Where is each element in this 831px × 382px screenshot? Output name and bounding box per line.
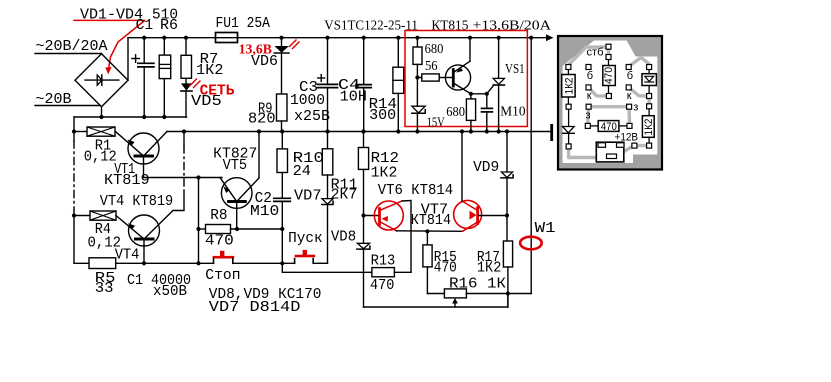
PCB link left pad to 1K2 box	[567, 69, 569, 75]
resistor R13	[372, 268, 395, 277]
transistor VT6 (red)	[364, 215, 379, 217]
PCB link stb pad to 470 box	[608, 59, 610, 66]
svg-text:2К7: 2К7	[331, 187, 358, 203]
resistor 680 upper	[416, 38, 418, 47]
PCB trace Z link horizontal	[589, 105, 630, 108]
resistor R12	[363, 132, 365, 148]
svg-text:б: б	[627, 70, 633, 82]
node rail-R9/R10	[280, 129, 284, 133]
svg-text:1К2: 1К2	[564, 78, 576, 95]
node R6 bottom	[162, 115, 166, 119]
bridge diode symbol	[85, 79, 119, 81]
capacitor C2	[274, 197, 291, 199]
svg-text:1К2: 1К2	[371, 166, 398, 182]
svg-text:VD7 D814D: VD7 D814D	[209, 300, 301, 316]
svg-text:470: 470	[603, 67, 615, 84]
svg-text:R6: R6	[160, 18, 178, 34]
wire collector link VT4 solid top	[183, 132, 185, 147]
svg-text:VS1: VS1	[505, 61, 525, 76]
node rail-680 lower	[469, 129, 473, 133]
svg-text:W1: W1	[535, 221, 556, 237]
PCB component diode left	[563, 127, 575, 133]
node R16-R17	[506, 291, 510, 295]
node VT5 base-R8	[235, 227, 239, 231]
node VT6 base / R12 / VD8	[361, 213, 365, 217]
node rail-VT7	[460, 129, 464, 133]
svg-text:VT4 КТ819: VT4 КТ819	[100, 194, 173, 210]
svg-text:Стоп: Стоп	[205, 268, 240, 284]
capacitor M10	[486, 94, 488, 109]
PCB component diode right (boxed)	[642, 74, 656, 86]
svg-text:КТ819: КТ819	[104, 173, 150, 189]
node rail-zener15V	[415, 129, 419, 133]
node top VD6	[279, 36, 283, 40]
zener VD7	[322, 199, 333, 205]
wire VT6 lower lead along y231.3	[397, 230, 463, 233]
PCB pad left col top	[566, 65, 571, 70]
red pointer arrow from VD1-VD4 to bridge	[108, 21, 144, 70]
wire bottom bus y307	[364, 294, 508, 308]
resistor R14	[397, 38, 399, 67]
svg-text:1000: 1000	[290, 93, 325, 109]
svg-text:стб: стб	[587, 47, 604, 59]
node rail-dashline	[182, 129, 186, 133]
node rail-R1	[72, 129, 76, 133]
red underline under VD1-VD4	[74, 19, 145, 21]
wire AC input 1	[35, 53, 102, 55]
PCB link diode to pad	[568, 134, 570, 145]
PCB trace right K pad to E pad	[629, 87, 647, 96]
PCB link left col pad to diode	[568, 109, 570, 127]
output arrow +13.6V	[546, 34, 554, 41]
PCB pad K right	[626, 85, 631, 90]
transistor KT815 internal	[445, 65, 470, 90]
wire VT7 upper lead to rail	[461, 132, 463, 202]
PCB link E col to 1K2 right box	[648, 108, 650, 116]
PCB pad Z right	[627, 104, 632, 109]
svg-text:+12В: +12В	[615, 132, 639, 144]
wire left rail upper	[73, 117, 75, 141]
svg-text:470: 470	[205, 233, 234, 249]
PCB pad E mid	[647, 94, 652, 99]
wire VS1 gate	[487, 86, 493, 94]
PCB trace stb pads	[607, 47, 610, 57]
node top R14	[396, 36, 400, 40]
wire main rail y131.5	[167, 131, 550, 133]
PCB trace left pad to stb	[568, 47, 605, 65]
PCB white island	[563, 41, 658, 164]
resistor R1 (shunt with X)	[87, 127, 115, 136]
LED VD5	[185, 78, 187, 83]
node top W1 column	[529, 36, 533, 40]
welding loop W1 (red ellipse)	[520, 237, 542, 250]
resistor R5	[89, 258, 116, 269]
svg-text:з: з	[586, 110, 591, 122]
svg-text:х25В: х25В	[294, 109, 330, 125]
node R8 left	[196, 227, 200, 231]
node top C4	[362, 36, 366, 40]
svg-text:56: 56	[425, 58, 438, 73]
wire bottom-left bus y263.3	[74, 262, 89, 264]
resistor 56	[417, 77, 421, 79]
node top C1	[142, 36, 146, 40]
resistor R17	[503, 241, 512, 267]
wire VT5 base down	[236, 203, 238, 229]
svg-text:VS1ТС122-25-11: VS1ТС122-25-11	[324, 18, 418, 33]
capacitor C4	[363, 38, 365, 85]
svg-text:680: 680	[446, 104, 465, 119]
node VD9-VT7 base	[505, 213, 509, 217]
svg-text:VD5: VD5	[191, 94, 222, 110]
wire top rail +	[128, 37, 547, 39]
PCB component 470 horizontal	[598, 121, 619, 132]
transistor VT4	[129, 215, 160, 246]
PCB pad E mid2	[647, 104, 652, 109]
wire W1 column	[530, 38, 532, 294]
fuse FU1	[216, 33, 238, 43]
node base wire x198.5	[196, 175, 200, 179]
svg-text:б: б	[587, 70, 593, 82]
node top C3	[325, 36, 329, 40]
PCB pad 470H right	[627, 123, 632, 128]
node bus-VT4 base	[142, 261, 146, 265]
potentiometer R16	[427, 293, 444, 295]
PCB pad E bottom	[647, 143, 652, 148]
svg-text:470: 470	[370, 278, 394, 294]
wire R8 row y229	[199, 228, 206, 230]
PCB pad Z left	[586, 104, 591, 109]
PCB component 1К2 right	[642, 116, 654, 138]
node rail-capM10	[485, 129, 489, 133]
PCB trace 470 right pad up	[627, 110, 631, 124]
PCB pad E top	[647, 65, 652, 70]
wire KT815 emitter node	[471, 93, 487, 95]
svg-text:1К2: 1К2	[643, 119, 655, 136]
svg-text:FU1 25А: FU1 25А	[216, 16, 271, 32]
PCB pad K left	[586, 85, 591, 90]
resistor R11	[327, 132, 329, 149]
PCB trace E pad chain	[647, 96, 650, 106]
transistor VT7 (red)	[454, 200, 482, 228]
PCB pad B left	[586, 65, 591, 70]
wire left rail dash-dot section	[73, 141, 75, 210]
wire VT1 base down	[144, 158, 223, 178]
zener 15V	[412, 106, 425, 113]
wire bottom bus y117	[74, 116, 187, 118]
svg-text:24: 24	[293, 164, 311, 180]
svg-text:Пуск: Пуск	[288, 231, 323, 247]
button Стоп contacts	[213, 259, 215, 264]
svg-text:VD8: VD8	[331, 229, 356, 245]
wire KT815 collector to top rail	[469, 38, 471, 62]
node C2-R8 right	[280, 227, 284, 231]
bridge rectifier VD1-VD4 diamond	[75, 54, 128, 107]
wire VT4 base down	[143, 241, 145, 264]
resistor 680 lower	[470, 94, 472, 99]
red module box VS1	[405, 31, 527, 127]
button Пуск contacts	[294, 259, 296, 264]
svg-text:к: к	[627, 90, 632, 102]
svg-text:VD6: VD6	[251, 54, 278, 70]
node top VS1	[497, 36, 501, 40]
capacitor C3	[327, 38, 329, 85]
capacitor C1	[143, 38, 145, 64]
svg-text:~20В/20А: ~20В/20А	[36, 39, 108, 55]
PCB link 1K2 right box to pad	[648, 137, 650, 143]
svg-text:VT5: VT5	[223, 158, 248, 174]
PCB transistor footprint	[596, 142, 624, 162]
PCB pad 470H left	[585, 123, 590, 128]
PCB trace right B pad to E pad	[630, 58, 649, 66]
PCB link 1K2 box to pad	[567, 97, 569, 105]
svg-text:КТ814: КТ814	[411, 213, 451, 229]
wire left rail lower	[73, 210, 75, 263]
node rail-R14	[396, 129, 400, 133]
node 56 branch	[415, 75, 419, 79]
R16 wiper arrow	[454, 301, 456, 307]
node KT815 collector top	[468, 36, 472, 40]
wire VT7 base to VD9 column	[479, 215, 507, 217]
node rail-C4/R12	[361, 129, 365, 133]
wire bridge minus down	[101, 107, 103, 117]
svg-text:х50В: х50В	[153, 284, 187, 300]
PCB link 470 box to bottom pad	[608, 86, 610, 95]
svg-text:М10: М10	[500, 103, 525, 118]
svg-text:680: 680	[425, 41, 444, 56]
node C1 bottom	[142, 115, 146, 119]
node top zener column	[415, 36, 419, 40]
wire rail to R1	[74, 131, 87, 133]
svg-text:820: 820	[248, 112, 276, 128]
svg-text:470: 470	[434, 260, 457, 276]
transistor VT5	[221, 178, 252, 209]
zener VD8	[357, 243, 369, 248]
svg-text:VT4: VT4	[115, 248, 140, 264]
PCB pad B right	[626, 65, 631, 70]
svg-text:VD9: VD9	[473, 160, 499, 176]
node emitter-cap	[485, 92, 489, 96]
node R15 top	[425, 229, 429, 233]
svg-text:М10: М10	[250, 204, 279, 220]
LED VD5 emission strokes (red)	[190, 79, 197, 86]
zener VD9	[506, 132, 508, 173]
resistor R9	[277, 94, 288, 121]
node rail-VD9	[505, 129, 509, 133]
node top R6	[162, 36, 166, 40]
resistor R8	[206, 225, 231, 234]
svg-text:к: к	[587, 90, 592, 102]
capacitor C3 polarity plus	[318, 77, 325, 79]
wire AC input 2	[35, 105, 100, 107]
wire bridge plus up to top rail	[127, 38, 129, 81]
wire rail to R4	[74, 215, 90, 217]
wire C2 node down to bus	[281, 229, 283, 263]
PCB pad +12V	[632, 143, 637, 148]
svg-text:з: з	[633, 102, 638, 114]
LED VD6 emission strokes (red)	[290, 40, 297, 47]
wire collector link VT4 solid bottom	[173, 190, 184, 211]
transistor VT1	[128, 133, 159, 164]
PCB link 470H box left pad	[590, 125, 599, 127]
node bus-Stop/Pusk	[280, 261, 284, 265]
resistor R15	[426, 231, 428, 245]
resistor R6	[163, 38, 165, 55]
button Стоп (red actuator)	[220, 251, 224, 256]
wire from bus down to R13 row	[282, 263, 372, 272]
svg-text:0,12: 0,12	[84, 149, 117, 165]
resistor R10	[281, 132, 283, 149]
svg-text:15V: 15V	[427, 115, 445, 130]
PCB trace +12V pad to E column	[637, 144, 647, 147]
button Пуск (red actuator)	[303, 250, 307, 255]
PCB component 470 center	[603, 66, 616, 86]
PCB link 470H box right pad	[619, 125, 628, 127]
svg-text:VT6 КТ814: VT6 КТ814	[378, 183, 453, 199]
capacitor C1 polarity plus	[132, 58, 140, 60]
PCB pad left col mid	[566, 104, 571, 109]
PCB pad left col bottom	[566, 144, 571, 149]
PCB trace 470 left pad up	[586, 110, 590, 124]
resistor R4 (shunt with X)	[90, 211, 116, 220]
svg-text:VD7: VD7	[294, 189, 322, 205]
node rail-C3/R11	[325, 129, 329, 133]
wire VT6 upper lead to R13 column	[402, 201, 411, 273]
wire collector link dash-dot	[183, 146, 185, 190]
PCB trace left K pad to 470 bottom pad	[589, 87, 607, 96]
PCB component 1К2 left	[562, 75, 575, 98]
thyristor VS1	[498, 38, 500, 79]
svg-text:R8: R8	[210, 208, 227, 224]
PCB pad stb lower	[606, 55, 611, 60]
svg-text:1К2: 1К2	[196, 63, 223, 79]
node top R7	[184, 36, 188, 40]
resistor R7	[185, 38, 187, 56]
output terminal bar (minus)	[550, 124, 553, 141]
PCB pad stb top	[606, 44, 611, 49]
wire VT5 collector up	[258, 132, 260, 179]
PCB inset board background	[558, 36, 662, 170]
PCB pad 470 bottom	[606, 94, 611, 99]
svg-text:300: 300	[369, 108, 396, 124]
node bridge minus	[99, 115, 103, 119]
PCB trace +12V pad to footprint	[618, 147, 632, 152]
wire column x198.5	[198, 178, 200, 264]
LED VD6	[281, 38, 283, 46]
svg-text:10Н: 10Н	[340, 89, 367, 105]
node rail-VS1	[497, 129, 501, 133]
PCB link diode box to pad	[648, 86, 650, 95]
svg-text:33: 33	[95, 281, 114, 297]
node bus-x198.5	[196, 261, 200, 265]
node rail-R4	[72, 213, 76, 217]
svg-text:1К2: 1К2	[477, 260, 502, 276]
PCB trace left column bottom run	[569, 149, 611, 158]
node rail-VT5 collector	[257, 129, 261, 133]
svg-text:R13: R13	[371, 253, 396, 269]
node emitter-680	[469, 92, 473, 96]
PCB link E pad to diode box	[648, 69, 650, 74]
svg-text:С1: С1	[136, 18, 154, 34]
